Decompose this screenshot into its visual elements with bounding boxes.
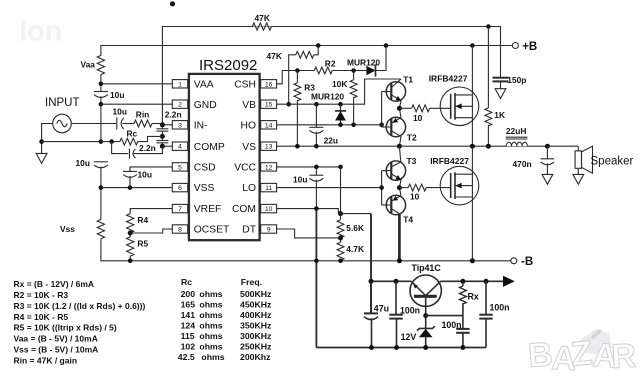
svg-text:10u: 10u	[76, 158, 90, 168]
capacitor 10u (VCC)	[315, 167, 317, 175]
pin 3 box	[172, 121, 187, 129]
transistor M1 IRFB4227 (high side)	[440, 87, 479, 126]
svg-text:15: 15	[265, 102, 273, 109]
svg-text:GND: GND	[194, 100, 217, 111]
wire Vss to bus	[101, 239, 511, 261]
svg-text:47K: 47K	[267, 51, 282, 61]
node VS 470n	[545, 144, 550, 149]
node input gnd	[39, 139, 44, 144]
svg-text:10K: 10K	[332, 79, 347, 89]
svg-text:HO: HO	[241, 120, 256, 131]
node IN-	[160, 122, 165, 127]
resistor R2	[314, 67, 332, 74]
wire pin2 GND	[101, 103, 172, 105]
svg-text:10: 10	[265, 206, 273, 213]
wire pin12 VCC row	[277, 166, 341, 168]
svg-text:4.7K: 4.7K	[346, 244, 364, 254]
svg-text:16: 16	[265, 81, 273, 88]
ground 150p	[495, 89, 506, 99]
watermark BAZAR	[527, 329, 637, 378]
wire pin16 CSH jog	[277, 71, 315, 84]
svg-text:400KHz: 400KHz	[240, 310, 272, 320]
svg-text:450KHz: 450KHz	[240, 300, 272, 310]
pin 2 box	[172, 100, 187, 108]
svg-text:ohms: ohms	[199, 331, 222, 341]
svg-text:Tip41C: Tip41C	[412, 263, 442, 273]
svg-text:200Khz: 200Khz	[240, 352, 271, 362]
resistor 47K (feedback)	[252, 23, 271, 30]
capacitor 100n (left)	[395, 281, 397, 314]
node COM 10u	[314, 206, 319, 211]
transistor Q T2	[386, 117, 405, 136]
node VCC 10u	[314, 165, 319, 170]
svg-text:Freq.: Freq.	[241, 277, 262, 287]
node 10K top	[351, 68, 356, 73]
node emitter com	[369, 279, 374, 284]
svg-text:350KHz: 350KHz	[240, 321, 272, 331]
svg-text:VREF: VREF	[194, 204, 221, 215]
node 10u csd	[128, 185, 133, 190]
svg-text:T1: T1	[403, 75, 413, 85]
transistor Q T1	[386, 82, 405, 101]
wire pin8 OCSET	[130, 229, 172, 233]
resistor 10 (gate ls)	[399, 187, 408, 189]
capacitor 2.2n (upper)	[161, 125, 163, 129]
node HO base	[379, 123, 384, 128]
svg-text:LO: LO	[242, 183, 256, 194]
node 100n right top	[484, 279, 489, 284]
wire Rc lower branch	[112, 142, 129, 154]
wire Vaa rail mid	[100, 96, 102, 141]
svg-text:R4 = 10K - R5: R4 = 10K - R5	[14, 312, 69, 322]
pin 4 box	[172, 142, 187, 150]
node VSS rail	[99, 185, 104, 190]
svg-text:102: 102	[181, 342, 196, 352]
wire COMP to pin4	[162, 145, 172, 147]
node HO diode	[338, 123, 343, 128]
svg-text:8: 8	[178, 227, 182, 234]
node VS R3	[295, 144, 300, 149]
wire collector row	[441, 280, 504, 282]
capacitor 470n	[546, 146, 548, 158]
node VS 22u	[314, 144, 319, 149]
wire -B bus dots	[314, 259, 319, 264]
pin 11 box	[261, 183, 277, 191]
svg-text:Z: Z	[569, 334, 594, 374]
svg-text:ohms: ohms	[199, 300, 222, 310]
resistor R4	[127, 214, 134, 233]
svg-text:141: 141	[181, 310, 196, 320]
svg-text:Speaker: Speaker	[591, 155, 634, 167]
svg-text:10u: 10u	[293, 175, 307, 185]
svg-text:14: 14	[265, 122, 273, 129]
wire Rc to mid node	[138, 136, 163, 141]
op-amp IC U1 IRS2092 body	[189, 74, 260, 240]
source AC input	[53, 114, 72, 133]
svg-text:5: 5	[178, 164, 182, 171]
node VCC divider	[338, 165, 343, 170]
svg-text:47K: 47K	[255, 13, 270, 23]
svg-text:IN-: IN-	[194, 120, 208, 131]
svg-text:VCC: VCC	[234, 163, 256, 174]
diode MUR120 (bootstrap horizontal)	[366, 66, 375, 75]
svg-text:12: 12	[265, 164, 273, 171]
svg-text:150p: 150p	[507, 75, 526, 85]
wire pin5 CSD	[130, 167, 172, 171]
svg-text:R3 = 10K (1.2 / ((Id x Rds) +: R3 = 10K (1.2 / ((Id x Rds) + 0.6)))	[14, 301, 146, 311]
svg-text:Rx: Rx	[468, 291, 479, 301]
resistor 4.7K	[337, 242, 344, 260]
svg-text:115: 115	[181, 331, 195, 341]
svg-text:R5: R5	[137, 238, 148, 248]
svg-text:470n: 470n	[513, 159, 532, 169]
transistor Q T4	[386, 195, 405, 214]
capacitor 100n (right)	[485, 281, 487, 314]
pin 13 box	[261, 142, 277, 150]
svg-text:10u: 10u	[138, 169, 152, 179]
svg-text:500KHz: 500KHz	[240, 289, 272, 299]
svg-text:10u: 10u	[110, 90, 124, 100]
transistor Q5 Tip41C	[410, 275, 441, 306]
pin 7 box	[172, 204, 187, 212]
wire T1 T2 base bus	[381, 92, 383, 128]
pin 10 box	[261, 204, 277, 212]
wire pin7 VREF	[130, 209, 172, 214]
svg-text:22u: 22u	[324, 135, 338, 145]
wire IN- to pin3	[162, 124, 172, 126]
node R4 R5	[129, 233, 131, 237]
svg-text:300KHz: 300KHz	[240, 331, 272, 341]
wire top 47K feedback rail	[162, 27, 500, 125]
svg-text:2: 2	[178, 102, 182, 109]
capacitor 10u (Vaa)	[94, 91, 108, 93]
svg-text:CSD: CSD	[194, 163, 216, 174]
wire T4 collector heavy	[398, 214, 401, 261]
svg-text:47u: 47u	[374, 304, 389, 314]
node +B rail dots	[316, 43, 321, 48]
svg-text:T2: T2	[407, 132, 417, 142]
svg-text:Vss: Vss	[60, 224, 75, 234]
pin 8 box	[172, 225, 187, 233]
svg-text:IRFB4227: IRFB4227	[430, 156, 469, 166]
capacitor 22u	[315, 104, 317, 127]
svg-text:11: 11	[265, 185, 272, 192]
svg-text:9: 9	[267, 227, 271, 234]
svg-text:MUR120: MUR120	[347, 57, 380, 67]
svg-text:VB: VB	[242, 100, 256, 111]
svg-text:22uH: 22uH	[506, 126, 526, 136]
pin 5 box	[172, 163, 187, 171]
resistor Rx	[462, 281, 464, 286]
node emitter T1 T2	[397, 106, 402, 111]
node feedback/1K junction	[486, 24, 491, 29]
svg-text:Vaa = (B - 5V) / 10mA: Vaa = (B - 5V) / 10mA	[14, 334, 98, 344]
svg-text:-B: -B	[521, 256, 533, 268]
svg-text:100n: 100n	[490, 302, 510, 312]
capacitor 2.2n (lower)	[161, 136, 163, 140]
wire emitter row	[371, 280, 412, 282]
svg-text:T3: T3	[407, 156, 417, 166]
pin labels left	[194, 79, 230, 235]
wire pin14 HO row	[277, 124, 382, 126]
svg-text:12V: 12V	[401, 332, 417, 342]
svg-text:Rx = (B - 12V) / 6mA: Rx = (B - 12V) / 6mA	[14, 279, 95, 289]
node comp mid	[160, 134, 165, 139]
node Rx top	[460, 279, 465, 284]
transistor M2 IRFB4227 (low side)	[440, 166, 479, 205]
svg-text:10u: 10u	[113, 107, 127, 117]
wire bottom rail	[316, 347, 486, 349]
svg-text:R: R	[610, 337, 637, 376]
svg-text:Ion: Ion	[19, 16, 63, 48]
node base zener	[423, 313, 428, 318]
terminal -B	[511, 258, 517, 264]
resistor 5.6K	[337, 220, 344, 238]
node HO 10K	[351, 123, 356, 128]
capacitor 100n (middle)	[456, 328, 469, 330]
wire input left	[42, 124, 54, 142]
svg-text:2.2n: 2.2n	[165, 109, 182, 119]
node VS M1 source	[470, 144, 475, 149]
resistor 10K	[353, 71, 355, 80]
svg-text:COM: COM	[232, 204, 256, 215]
svg-text:Vaa: Vaa	[81, 60, 96, 70]
node Rc branch	[109, 139, 114, 144]
svg-text:124: 124	[181, 321, 196, 331]
resistor Rc	[120, 138, 138, 145]
svg-text:1: 1	[178, 81, 182, 88]
resistor R5	[127, 237, 134, 256]
svg-text:R2 = 10K - R3: R2 = 10K - R3	[14, 290, 69, 300]
svg-text:INPUT: INPUT	[45, 97, 80, 109]
node VB 22u	[314, 102, 319, 107]
svg-text:VAA: VAA	[194, 79, 214, 90]
pin 14 box	[261, 121, 277, 129]
pin 9 box	[261, 225, 277, 233]
capacitor 10u (CSD)	[123, 170, 137, 172]
pin 15 box	[261, 100, 277, 108]
svg-text:100n: 100n	[400, 305, 420, 315]
svg-text:COMP: COMP	[194, 142, 225, 153]
svg-text:Rin = 47K / gain: Rin = 47K / gain	[14, 355, 78, 365]
wire Vaa rail upper	[100, 75, 102, 92]
node 100n left top	[394, 279, 399, 284]
wire COM right vertical heavy	[370, 214, 372, 314]
table Rc Freq	[178, 277, 272, 362]
node emitter T3 T4	[397, 185, 402, 190]
svg-text:250KHz: 250KHz	[240, 342, 272, 352]
svg-text:DT: DT	[242, 225, 256, 236]
node VB diode	[338, 102, 343, 107]
diode MUR120 (vertical)	[340, 104, 342, 111]
svg-text:165: 165	[181, 300, 196, 310]
svg-text:ohms: ohms	[201, 352, 224, 362]
wire pin10 COM row	[277, 209, 371, 214]
svg-text:T4: T4	[403, 214, 413, 224]
node COMP	[160, 144, 165, 149]
wire COM left vertical	[315, 209, 317, 348]
svg-text:R5 = 10K ((Itrip x Rds) / 5): R5 = 10K ((Itrip x Rds) / 5)	[14, 323, 117, 333]
svg-text:10: 10	[413, 113, 423, 123]
svg-text:Rc: Rc	[181, 277, 192, 287]
pin labels right	[232, 79, 257, 235]
svg-text:MUR120: MUR120	[311, 92, 344, 102]
ground 470n	[542, 174, 553, 184]
svg-text:1K: 1K	[494, 110, 505, 120]
ground input	[41, 142, 43, 154]
node LO base	[379, 185, 384, 190]
svg-text:4: 4	[178, 144, 182, 151]
svg-text:R4: R4	[137, 215, 148, 225]
svg-text:ohms: ohms	[199, 321, 222, 331]
svg-text:CSH: CSH	[234, 79, 256, 90]
wire base to Rx bottom	[426, 315, 463, 317]
svg-text:200: 200	[181, 289, 196, 299]
wire pin13 VS row	[277, 145, 579, 147]
svg-text:3: 3	[178, 122, 182, 129]
svg-text:Rin: Rin	[136, 109, 150, 119]
wire Rc row	[42, 141, 120, 143]
pin 1 box	[172, 80, 187, 88]
svg-text:Rc: Rc	[127, 128, 138, 138]
node VS 1K	[486, 144, 491, 149]
wire T3 T4 base bus	[381, 171, 383, 205]
node VAA	[99, 82, 104, 87]
svg-text:5.6K: 5.6K	[346, 223, 364, 233]
node DT divider	[340, 237, 342, 243]
wire pin15 VB row	[277, 79, 401, 104]
pin 16 box	[261, 80, 277, 88]
arrow supply output	[503, 276, 515, 287]
svg-text:13: 13	[265, 144, 273, 151]
svg-text:IRS2092: IRS2092	[199, 57, 257, 74]
ground speaker	[573, 174, 584, 184]
wire pin6 VSS	[101, 187, 172, 189]
node rail dots	[369, 345, 374, 350]
svg-text:+B: +B	[522, 41, 537, 53]
svg-text:ohms: ohms	[199, 310, 222, 320]
wire pin11 LO row	[277, 187, 382, 189]
resistor Vss	[97, 220, 104, 239]
node R5 bus	[128, 259, 133, 264]
resistor Rin	[123, 123, 135, 125]
wire pin9 DT jog	[277, 229, 341, 238]
node Rc rail	[99, 139, 104, 144]
node R3 top	[295, 68, 300, 73]
capacitor 10u (input series)	[116, 118, 118, 130]
svg-text:B: B	[527, 335, 554, 375]
svg-text:Vss = (B - 5V) / 10mA: Vss = (B - 5V) / 10mA	[14, 344, 99, 354]
node 4.7K bus	[338, 259, 343, 264]
wire input to cap	[71, 123, 116, 125]
resistor 47K (CSH)	[289, 55, 296, 104]
wire M1 drain source vertical	[471, 46, 473, 147]
wire R2 to diode	[332, 70, 366, 72]
svg-text:VS: VS	[242, 142, 256, 153]
node COM divider	[338, 211, 343, 216]
svg-text:OCSET: OCSET	[194, 225, 230, 236]
resistor R3	[296, 71, 298, 83]
svg-text:2.2n: 2.2n	[139, 143, 156, 153]
resistor 10 (gate hs)	[399, 107, 411, 109]
wire VCC divider vertical	[340, 167, 342, 220]
node CSH 47K VB	[286, 102, 291, 107]
terminal +B	[512, 43, 518, 49]
wire pin1 VAA	[101, 83, 172, 85]
wire rail to VSS	[100, 167, 102, 220]
inductor 22uH	[506, 140, 527, 146]
svg-text:10: 10	[410, 192, 420, 202]
diode zener 12V	[425, 316, 427, 329]
formulas text block	[14, 279, 146, 365]
wire +B rail	[101, 46, 513, 56]
svg-text:ohms: ohms	[199, 289, 222, 299]
svg-text:100n: 100n	[442, 320, 462, 330]
wire M2 drain source vertical	[471, 146, 473, 261]
capacitor 150p	[493, 77, 509, 79]
transistor Q T3	[399, 146, 400, 162]
pin 12 box	[261, 163, 277, 171]
svg-text:VSS: VSS	[194, 183, 215, 194]
node GND	[99, 102, 104, 107]
svg-text:7: 7	[178, 206, 182, 213]
pin 6 box	[172, 183, 187, 191]
capacitor 47u	[370, 281, 372, 313]
svg-text:R2: R2	[325, 59, 336, 69]
node dot top-left stray	[170, 1, 175, 6]
resistor 1K with feedback vertical	[487, 27, 489, 108]
svg-text:IRFB4227: IRFB4227	[429, 73, 468, 83]
capacitor 2.2n series (lower branch)	[128, 149, 130, 159]
svg-text:42.5: 42.5	[178, 352, 195, 362]
wire cap to COMP	[134, 146, 163, 153]
svg-text:6: 6	[178, 185, 182, 192]
speaker	[577, 146, 579, 151]
resistor Vaa	[97, 55, 104, 74]
node VS T2 T3	[397, 144, 402, 149]
capacitor 10u (rail lower)	[94, 161, 108, 163]
svg-text:ohms: ohms	[199, 342, 222, 352]
